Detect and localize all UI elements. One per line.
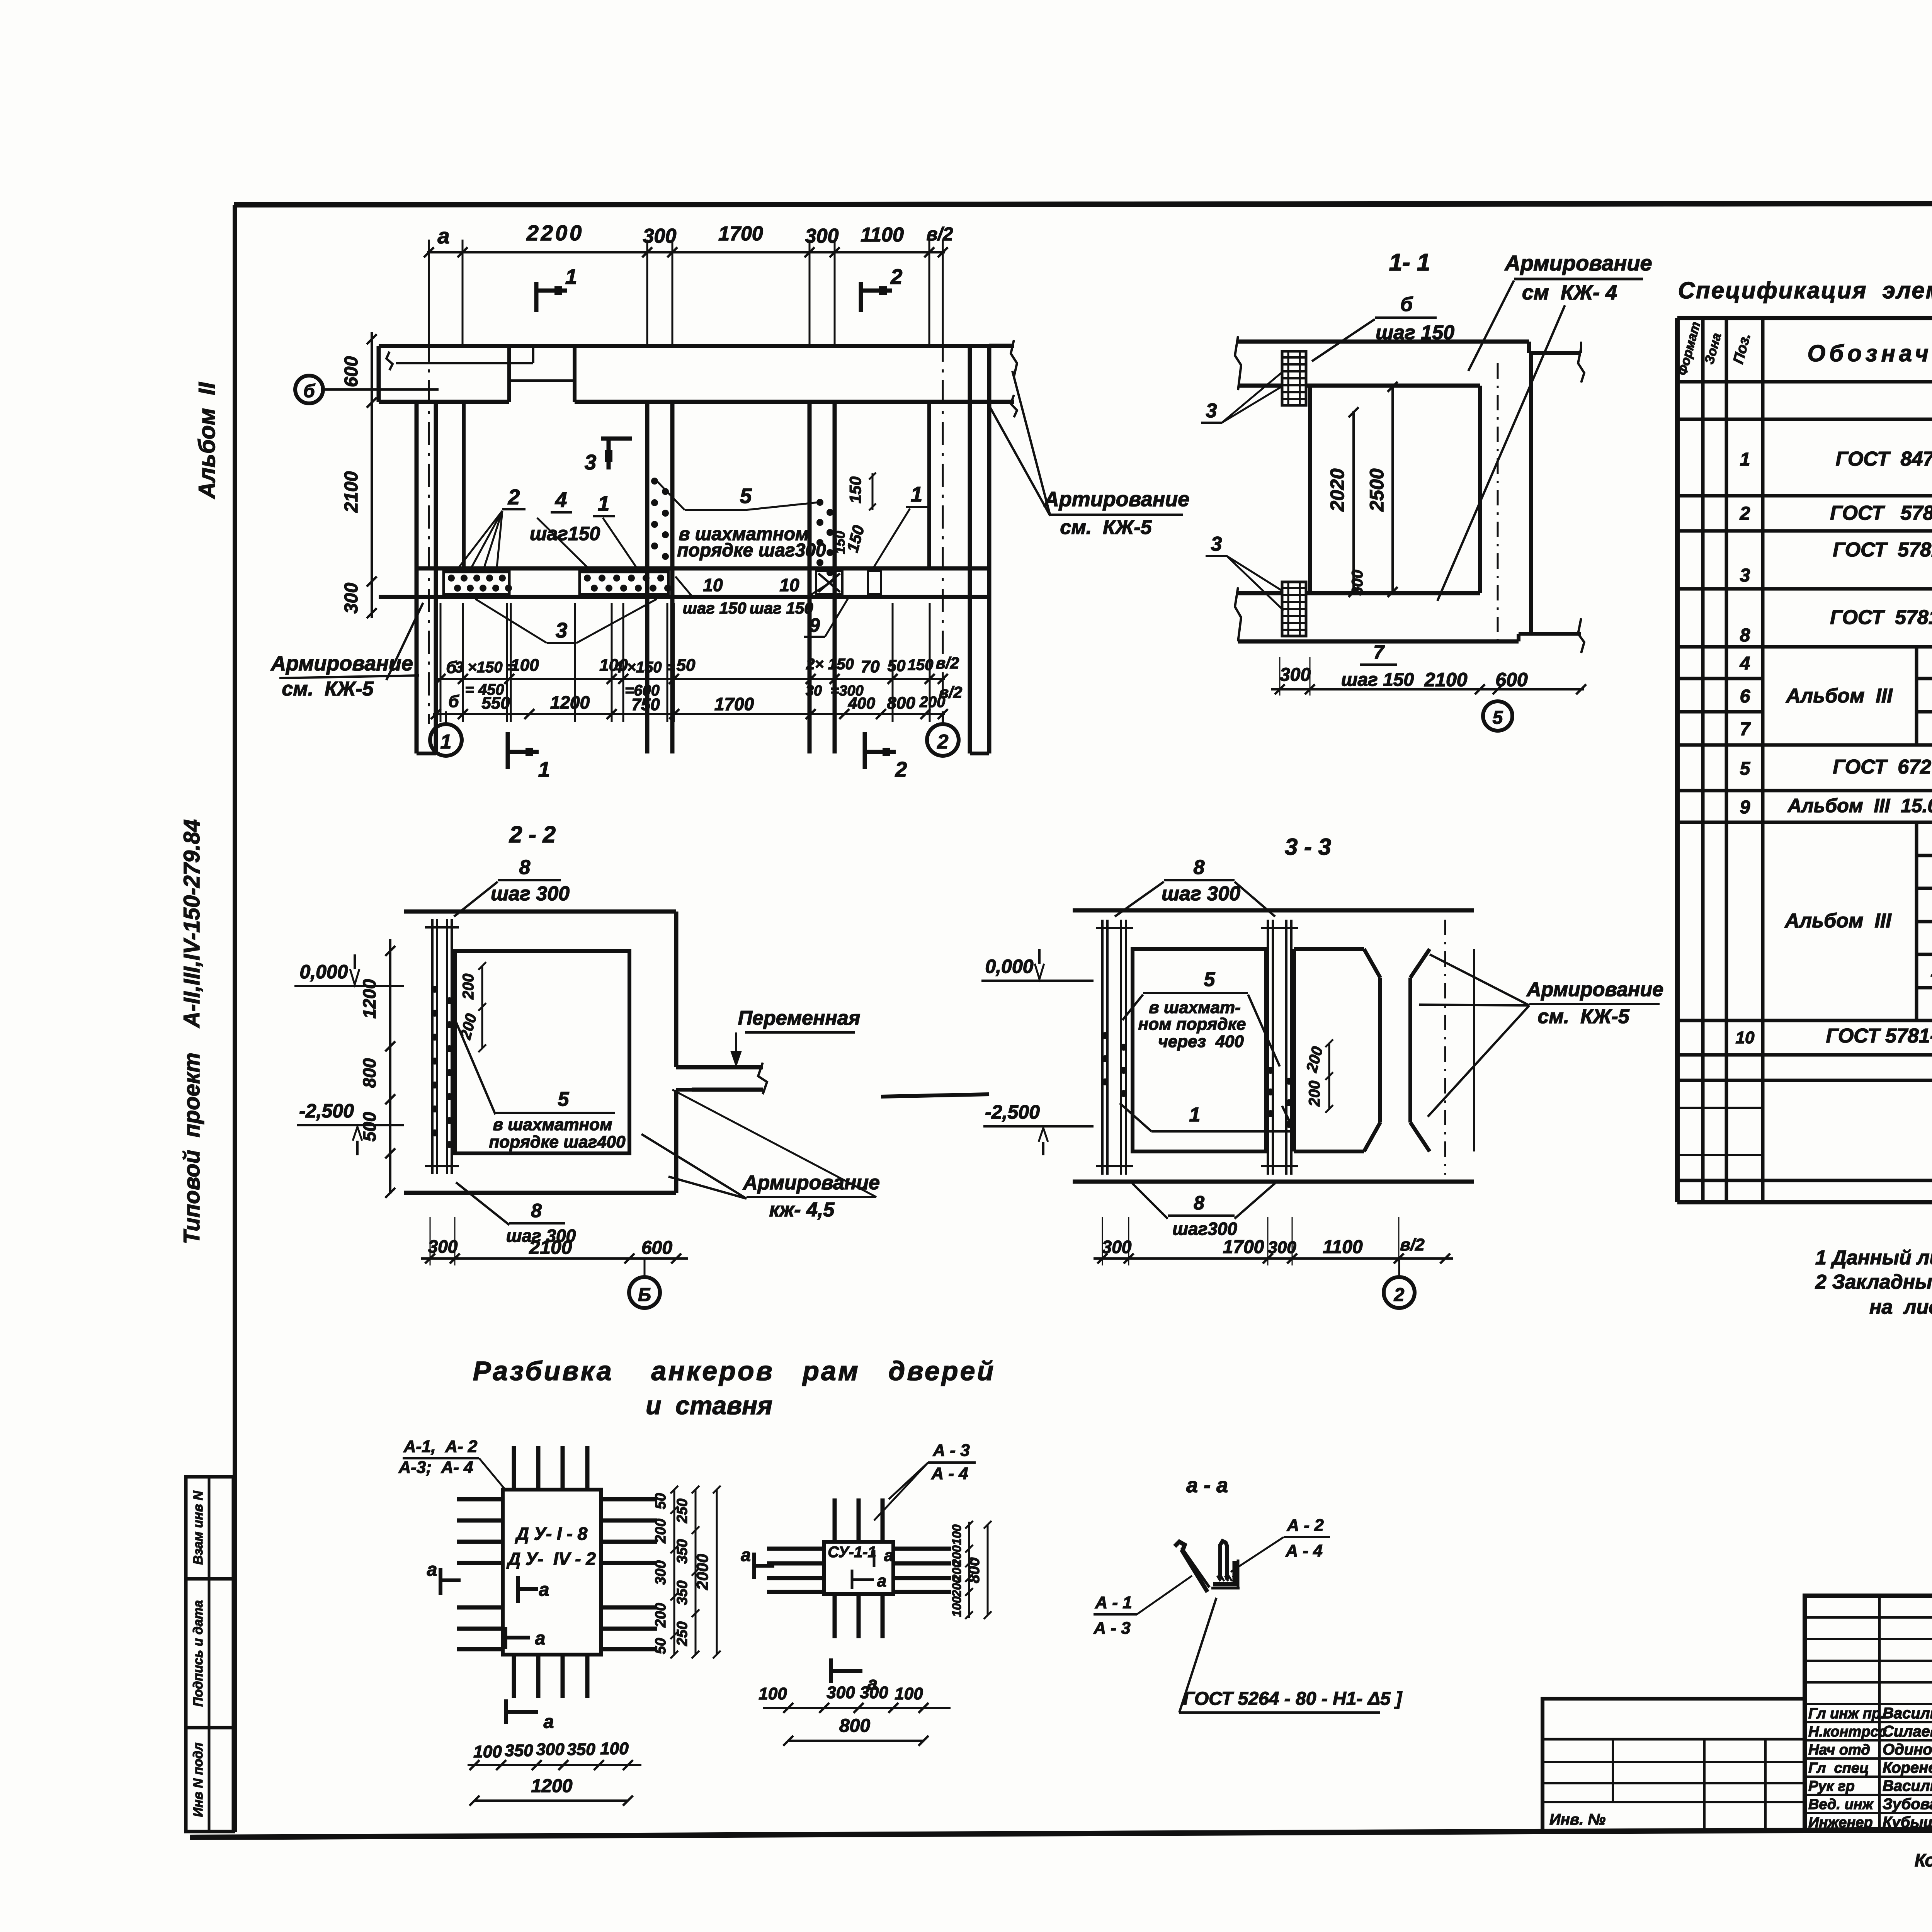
plan: left outer wall	[415, 402, 419, 753]
svg-text:Н.контрсс: Н.контрсс	[1808, 1724, 1887, 1740]
svg-text:Гл спец: Гл спец	[1808, 1760, 1869, 1776]
svg-text:Типовой проект А-II,III,IV: Типовой проект А-II,III,IV-150-279.84	[179, 819, 204, 1244]
section 3-3 axis circle 2	[1384, 1277, 1415, 1308]
svg-text:Армирование: Армирование	[1504, 251, 1652, 275]
svg-text:Подпись и дата: Подпись и дата	[191, 1600, 206, 1707]
svg-text:1- 1: 1- 1	[1389, 249, 1430, 276]
svg-text:800: 800	[887, 694, 915, 713]
section 1-1 right flange breaks	[1578, 348, 1584, 383]
section 3-3 inner room	[1133, 949, 1266, 1151]
svg-text:300: 300	[341, 583, 362, 614]
section 2-2 bottom line	[404, 1191, 676, 1195]
anchor diagram ДУ: right anchors	[601, 1497, 657, 1502]
svg-text:7: 7	[1373, 641, 1385, 663]
svg-text:2100: 2100	[529, 1236, 572, 1258]
detail a-a anchor sketch	[1175, 1542, 1207, 1592]
plan: axis circle б	[295, 376, 323, 403]
svg-text:порядке шаг400: порядке шаг400	[489, 1133, 626, 1151]
svg-text:300: 300	[860, 1683, 888, 1702]
svg-text:750: 750	[631, 695, 660, 714]
plan: section mark 3 (left)	[601, 437, 632, 441]
section 3-3 left rebar band	[1101, 920, 1104, 1175]
svg-text:1100: 1100	[861, 224, 904, 246]
svg-text:4: 4	[1740, 653, 1750, 674]
svg-text:a: a	[539, 1580, 549, 1600]
svg-text:см КЖ- 4: см КЖ- 4	[1522, 281, 1617, 304]
svg-text:Кореневский: Кореневский	[1883, 1759, 1932, 1776]
svg-text:ГОСТ 5781- 82: ГОСТ 5781- 82	[1833, 539, 1932, 561]
section 3-3 right T profile	[1294, 947, 1364, 951]
left margin stamp boxes	[186, 1477, 233, 1832]
svg-text:5: 5	[1493, 707, 1503, 728]
plan: mid wall rebar dots	[651, 478, 658, 485]
svg-text:2× 150: 2× 150	[806, 656, 854, 673]
svg-text:шаг150: шаг150	[530, 523, 600, 544]
svg-text:5: 5	[740, 484, 752, 508]
section 1-1 bottom slab	[1238, 639, 1519, 644]
section 1-1 left break marks	[1235, 336, 1241, 390]
svg-text:1200: 1200	[359, 979, 379, 1019]
svg-text:8: 8	[1194, 1192, 1204, 1214]
svg-text:А - 4: А - 4	[1285, 1541, 1322, 1560]
svg-text:Нач отд: Нач отд	[1808, 1742, 1870, 1758]
svg-text:Армирование: Армирование	[742, 1172, 880, 1194]
section 3-3 mid rebar band	[1267, 920, 1269, 1175]
svg-text:А - 3: А - 3	[1093, 1619, 1130, 1638]
svg-text:шаг 300: шаг 300	[1162, 883, 1240, 905]
anchor diagram СУ: right dims	[968, 1522, 970, 1618]
svg-text:150: 150	[832, 531, 848, 554]
svg-text:200: 200	[457, 1012, 480, 1042]
anchor diagram СУ: anchors	[833, 1498, 837, 1542]
svg-text:Спецификация элементов к схе: Спецификация элементов к схемам располож…	[1678, 277, 1932, 303]
svg-text:3 - 3: 3 - 3	[1285, 834, 1331, 860]
svg-text:порядке шаг300: порядке шаг300	[677, 540, 826, 561]
svg-text:200: 200	[950, 1576, 964, 1597]
section 1-1 vertical dims 2020 2500	[1352, 411, 1355, 593]
svg-text:Кубышкина: Кубышкина	[1883, 1814, 1932, 1831]
svg-text:в/2: в/2	[939, 683, 962, 701]
svg-text:300: 300	[653, 1560, 669, 1585]
svg-text:1: 1	[911, 482, 923, 506]
svg-text:8: 8	[1740, 625, 1750, 646]
svg-text:10: 10	[779, 575, 799, 595]
svg-text:2500: 2500	[1366, 468, 1388, 512]
svg-text:на листах КЖ-12 , КЖ-13: на листах КЖ-12 , КЖ-13	[1869, 1296, 1932, 1318]
svg-text:18,00.00 - 01: 18,00.00 - 01	[1930, 961, 1932, 980]
svg-text:200: 200	[460, 974, 477, 1000]
svg-text:1700: 1700	[1223, 1237, 1264, 1257]
svg-text:300: 300	[536, 1740, 565, 1759]
svg-text:300: 300	[428, 1236, 458, 1257]
anchor diagram ДУ: right dim chains	[673, 1490, 675, 1655]
svg-text:Переменная: Переменная	[738, 1007, 861, 1029]
svg-text:1200: 1200	[550, 692, 590, 713]
svg-text:Вед. инж: Вед. инж	[1808, 1796, 1874, 1813]
svg-text:a: a	[877, 1571, 886, 1590]
plan: left dimension chain	[371, 332, 373, 618]
svg-text:2100: 2100	[1424, 669, 1467, 690]
svg-text:50: 50	[888, 656, 906, 675]
svg-text:б: б	[1400, 293, 1413, 316]
svg-text:А - 4: А - 4	[931, 1464, 968, 1483]
specification table grid	[1675, 318, 1680, 1202]
svg-text:Поз.: Поз.	[1730, 332, 1754, 366]
svg-text:8: 8	[531, 1200, 542, 1221]
plan: right outer wall	[968, 346, 972, 753]
anchor diagram СУ: rectangle	[824, 1542, 893, 1594]
svg-text:550: 550	[481, 694, 510, 713]
svg-text:8: 8	[519, 856, 531, 879]
svg-text:Зубова: Зубова	[1883, 1796, 1932, 1813]
svg-text:2: 2	[937, 731, 949, 753]
svg-text:300: 300	[1268, 1238, 1296, 1257]
svg-text:через 400: через 400	[1158, 1032, 1244, 1051]
svg-text:a - a: a - a	[1186, 1474, 1228, 1497]
section 2-2 right wall and duct	[674, 912, 679, 1067]
anchor diagram ДУ: bottom dims	[468, 1764, 641, 1766]
svg-text:350: 350	[505, 1741, 533, 1760]
svg-text:шаг 150: шаг 150	[1341, 670, 1414, 690]
section 2-2 small dims 200 200	[481, 966, 483, 1048]
svg-text:100: 100	[473, 1742, 502, 1761]
section 2-2 top line	[404, 910, 676, 914]
svg-text:шаг 300: шаг 300	[491, 883, 570, 905]
svg-text:2000: 2000	[693, 1554, 711, 1590]
svg-text:200: 200	[1306, 1081, 1323, 1107]
section 2-2 axis circle Б	[629, 1277, 660, 1308]
svg-text:А - 1: А - 1	[1095, 1593, 1132, 1612]
svg-text:800: 800	[839, 1716, 870, 1736]
svg-text:шаг 150: шаг 150	[683, 599, 747, 617]
svg-text:300: 300	[1102, 1237, 1132, 1257]
svg-text:Д У- IV - 2: Д У- IV - 2	[506, 1549, 596, 1569]
svg-text:см. КЖ-5: см. КЖ-5	[1060, 516, 1152, 539]
svg-text:2: 2	[1394, 1285, 1405, 1305]
svg-text:1: 1	[1740, 449, 1750, 470]
svg-text:a: a	[884, 1546, 893, 1565]
svg-text:350: 350	[674, 1539, 690, 1563]
svg-text:70: 70	[861, 657, 880, 676]
sheet frame border	[234, 203, 1932, 205]
svg-text:5: 5	[558, 1088, 570, 1111]
svg-text:2: 2	[895, 757, 907, 781]
svg-text:a: a	[741, 1545, 751, 1565]
svg-text:2: 2	[1740, 503, 1750, 524]
svg-text:500: 500	[359, 1112, 379, 1141]
svg-text:Силаева: Силаева	[1883, 1723, 1932, 1740]
svg-text:ГОСТ 6727- 80: ГОСТ 6727- 80	[1833, 756, 1932, 778]
anchor diagram СУ: a marks	[752, 1553, 756, 1579]
svg-text:2: 2	[508, 485, 520, 509]
plan: extension lines to bottom dims	[440, 603, 442, 722]
svg-text:1200: 1200	[531, 1776, 573, 1796]
svg-text:10: 10	[703, 575, 723, 595]
svg-text:2: 2	[890, 265, 903, 289]
svg-text:Одиноков: Одиноков	[1883, 1741, 1932, 1758]
svg-text:в/2: в/2	[1400, 1235, 1425, 1254]
svg-text:150: 150	[846, 476, 864, 503]
plan: top band right extension with break	[989, 344, 1014, 348]
svg-text:Инв. №: Инв. №	[1549, 1811, 1605, 1828]
svg-text:Разбивка анкеров рам дв: Разбивка анкеров рам дверей	[473, 1356, 996, 1386]
svg-text:800: 800	[359, 1058, 379, 1088]
svg-text:1: 1	[598, 492, 610, 515]
svg-text:1: 1	[538, 757, 550, 781]
svg-text:3: 3	[1211, 533, 1222, 555]
svg-text:Альбом III: Альбом III	[1785, 685, 1893, 707]
section 1-1 axis circle 5	[1483, 701, 1512, 731]
section 1-1 bottom dims	[1271, 688, 1584, 690]
svg-text:50: 50	[677, 656, 696, 675]
svg-text:30: 30	[806, 683, 822, 699]
svg-text:ГОСТ 5781 - 82: ГОСТ 5781 - 82	[1830, 606, 1932, 629]
anchor diagram ДУ: rectangle	[503, 1490, 601, 1655]
svg-text:б: б	[448, 692, 459, 711]
svg-text:4: 4	[555, 488, 567, 512]
svg-text:Копировал: Копировал	[1915, 1850, 1932, 1870]
svg-text:А-3; А- 4: А-3; А- 4	[398, 1458, 473, 1477]
section 1-1 right wall	[1529, 353, 1533, 634]
svg-text:1: 1	[565, 265, 577, 289]
svg-text:300: 300	[1280, 665, 1311, 685]
svg-text:200: 200	[653, 1519, 669, 1543]
svg-text:Взам инв N: Взам инв N	[191, 1490, 206, 1565]
svg-text:600: 600	[1495, 669, 1528, 690]
svg-text:см. КЖ-5: см. КЖ-5	[282, 678, 374, 700]
plan: axis dash-dot lines	[428, 255, 430, 724]
svg-text:Инв N подл: Инв N подл	[191, 1743, 206, 1817]
section 2-2 bottom dims	[421, 1257, 688, 1260]
svg-text:300: 300	[1349, 570, 1366, 596]
svg-text:Васильева: Васильева	[1883, 1777, 1932, 1794]
svg-text:8: 8	[1194, 856, 1205, 879]
svg-text:Альбом III: Альбом III	[1784, 910, 1892, 932]
svg-text:a: a	[535, 1628, 546, 1649]
svg-text:a: a	[427, 1560, 437, 1580]
anchor diagram ДУ: left anchors	[457, 1497, 503, 1502]
svg-text:ГОСТ 5781- 82: ГОСТ 5781- 82	[1826, 1025, 1932, 1047]
svg-text:300: 300	[827, 1683, 855, 1702]
svg-text:2100: 2100	[341, 471, 362, 513]
plan: room cells inner outline	[462, 402, 466, 568]
svg-text:100: 100	[950, 1524, 964, 1545]
svg-text:5: 5	[1204, 968, 1216, 991]
svg-text:Зона: Зона	[1702, 332, 1724, 366]
svg-text:ГОСТ 5781- 82: ГОСТ 5781- 82	[1830, 502, 1932, 524]
svg-text:100: 100	[759, 1684, 787, 1703]
anchor diagram ДУ: top and bottom anchors	[512, 1446, 516, 1490]
section 3-3 top line	[1073, 908, 1474, 913]
svg-text:600: 600	[341, 356, 362, 387]
svg-text:Б: Б	[638, 1285, 651, 1305]
svg-text:3: 3	[556, 618, 568, 642]
svg-text:0,000: 0,000	[299, 961, 348, 983]
svg-text:7: 7	[1740, 719, 1751, 740]
section 2-2 inner room	[455, 951, 629, 1153]
plan: axis circle 2	[927, 724, 959, 756]
svg-text:100: 100	[950, 1596, 964, 1617]
svg-text:0,000: 0,000	[985, 956, 1033, 977]
svg-text:800: 800	[966, 1558, 983, 1583]
svg-text:200: 200	[653, 1603, 669, 1628]
svg-text:5: 5	[1740, 759, 1751, 779]
plan: bottom dim chains	[438, 678, 945, 680]
plan: rebar strips with dots (bottom)	[444, 572, 509, 594]
svg-text:в шахматном: в шахматном	[493, 1115, 612, 1134]
svg-text:Армирование: Армирование	[1526, 978, 1663, 1001]
svg-text:ном порядке: ном порядке	[1138, 1015, 1246, 1034]
svg-text:А-1, А- 2: А-1, А- 2	[403, 1437, 478, 1456]
svg-text:Альбом III 15.00.00: Альбом III 15.00.00	[1787, 795, 1932, 816]
section 1-1 rebar bar top	[1282, 351, 1306, 405]
svg-text:1100: 1100	[1323, 1237, 1363, 1257]
svg-text:б: б	[303, 381, 315, 401]
section 2-2 left rebar band	[431, 919, 434, 1174]
svg-text:Гл инж пр.: Гл инж пр.	[1808, 1706, 1885, 1722]
svg-text:300: 300	[643, 225, 677, 247]
section 1-1 top slab	[1238, 340, 1529, 344]
svg-text:300: 300	[805, 225, 839, 247]
svg-text:2020: 2020	[1327, 468, 1348, 512]
plan: section mark 2 (bottom)	[863, 732, 867, 769]
section 2-2 far right floor line	[881, 1094, 989, 1097]
svg-text:Рук гр: Рук гр	[1808, 1778, 1855, 1794]
svg-text:1 Данный лист смотреть совмест: 1 Данный лист смотреть совместно с листа…	[1815, 1247, 1932, 1269]
plan: walls outline	[379, 344, 989, 348]
section 3-3 bottom line	[1073, 1180, 1474, 1184]
svg-text:Артирование: Артирование	[1043, 488, 1190, 511]
svg-text:350: 350	[567, 1740, 595, 1759]
svg-text:400: 400	[848, 694, 875, 712]
svg-text:-2,500: -2,500	[299, 1100, 354, 1122]
svg-text:a: a	[544, 1712, 554, 1732]
svg-text:50: 50	[653, 1493, 669, 1509]
plan: section mark 2 (top)	[859, 282, 863, 312]
anchor diagram ДУ: section marks a	[439, 1568, 442, 1595]
svg-text:10: 10	[1736, 1028, 1755, 1047]
svg-text:в шахмат-: в шахмат-	[1149, 998, 1241, 1017]
svg-text:А - 2: А - 2	[1286, 1516, 1324, 1535]
svg-text:2 - 2: 2 - 2	[509, 821, 556, 847]
svg-text:Обозначение: Обозначение	[1807, 340, 1932, 366]
svg-text:Васильев: Васильев	[1883, 1705, 1932, 1722]
svg-text:ГОСТ 8478-81: ГОСТ 8478-81	[1836, 448, 1932, 470]
svg-text:2 Закладные детали установит: 2 Закладные детали установить в соответс…	[1815, 1271, 1932, 1293]
plan: top dimension line	[427, 251, 945, 253]
svg-text:1: 1	[440, 731, 452, 753]
svg-text:1700: 1700	[714, 694, 754, 714]
svg-text:1700: 1700	[718, 223, 763, 245]
svg-text:Д У- I - 8: Д У- I - 8	[515, 1524, 588, 1544]
svg-text:в/2: в/2	[936, 654, 959, 672]
svg-text:50: 50	[653, 1638, 669, 1654]
section 1-1 chamber walls	[1308, 386, 1312, 593]
svg-text:350: 350	[674, 1580, 690, 1605]
inventory box left of stamp	[1543, 1699, 1805, 1831]
svg-text:см. КЖ-5: см. КЖ-5	[1537, 1005, 1629, 1028]
svg-text:600: 600	[641, 1238, 672, 1258]
svg-text:250: 250	[674, 1498, 690, 1523]
svg-text:3: 3	[585, 450, 597, 474]
plan: axis circle 1	[430, 724, 462, 756]
svg-text:9: 9	[1740, 797, 1750, 818]
svg-text:100: 100	[895, 1684, 923, 1703]
svg-text:3: 3	[1740, 565, 1750, 586]
plan: section mark 1 (top)	[534, 282, 539, 312]
svg-text:шаг300: шаг300	[1172, 1219, 1237, 1239]
section 3-3 bottom dims	[1094, 1257, 1453, 1260]
svg-text:100: 100	[510, 656, 539, 675]
svg-text:СУ-1-1: СУ-1-1	[828, 1544, 876, 1561]
svg-text:Инженер: Инженер	[1808, 1815, 1873, 1831]
svg-text:А - 3: А - 3	[932, 1441, 969, 1460]
plan: section mark 1 (bottom)	[506, 732, 510, 769]
section 3-3 far right profile	[1408, 978, 1412, 1122]
svg-text:ГОСТ 5264 - 80 - Н1- Δ5 ]: ГОСТ 5264 - 80 - Н1- Δ5 ]	[1183, 1689, 1403, 1709]
section 1-1 rebar bar bottom	[1282, 582, 1306, 636]
svg-text:3: 3	[1206, 400, 1217, 422]
title block (stamp)	[1805, 1596, 1932, 1831]
svg-text:кж- 4,5: кж- 4,5	[769, 1199, 835, 1221]
svg-text:и ставня: и ставня	[646, 1391, 772, 1420]
section 2-2 left dims	[389, 939, 391, 1194]
svg-text:2200: 2200	[526, 221, 584, 245]
svg-text:в/2: в/2	[926, 224, 953, 245]
svg-text:шаг 150: шаг 150	[750, 599, 813, 617]
svg-text:Альбом II: Альбом II	[194, 382, 220, 499]
svg-text:200: 200	[1303, 1045, 1326, 1075]
svg-text:100: 100	[600, 1739, 629, 1758]
svg-text:6: 6	[1740, 686, 1750, 707]
svg-text:a: a	[437, 224, 449, 248]
plan: bottom wall band	[417, 566, 989, 571]
svg-text:1: 1	[1189, 1104, 1201, 1126]
svg-text:250: 250	[674, 1621, 690, 1646]
svg-text:-2,500: -2,500	[985, 1101, 1040, 1123]
section 3-3 dims 200 200	[1328, 1043, 1330, 1109]
